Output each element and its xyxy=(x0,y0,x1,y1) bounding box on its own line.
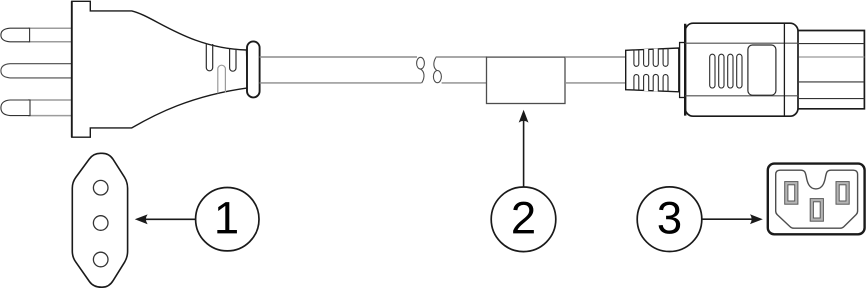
cable break mark left xyxy=(417,57,425,83)
comb flange xyxy=(680,43,686,98)
body grip slot 2 xyxy=(719,54,724,88)
cable segment right xyxy=(565,57,627,83)
comb slot top 3 xyxy=(653,49,658,67)
cable segment middle xyxy=(436,57,487,83)
body grip slot 4 xyxy=(737,54,742,88)
comb slot top 1 xyxy=(634,49,639,66)
callout circle 1 xyxy=(196,188,259,251)
comb slot bottom 2 xyxy=(644,74,649,91)
socket hole top xyxy=(93,180,108,195)
plug grip slot 1 xyxy=(206,43,212,71)
front line 1 xyxy=(799,43,864,45)
C13 front piece xyxy=(798,31,864,109)
plug grip slot 2 xyxy=(230,48,236,71)
callout circle 3 xyxy=(637,187,702,252)
socket hole bottom xyxy=(93,252,108,267)
front line 4 xyxy=(799,98,864,100)
plug pin top tip xyxy=(1,28,30,42)
inlet slot neutral xyxy=(836,182,849,205)
strain relief collar xyxy=(247,41,260,97)
inlet slot live xyxy=(785,182,798,205)
plug body xyxy=(72,1,248,137)
callout arrow 2 xyxy=(519,110,529,187)
cable segment left xyxy=(260,57,422,83)
body latch plate xyxy=(748,45,776,95)
C13 strain relief comb xyxy=(626,48,679,92)
callout arrow 1 xyxy=(135,214,196,224)
callout circle 2 xyxy=(491,187,556,252)
body mid band top line xyxy=(685,42,798,44)
C13 connector body xyxy=(685,23,798,116)
plug face edge xyxy=(71,1,73,137)
body left edge xyxy=(684,24,686,116)
socket hole middle xyxy=(93,216,108,231)
label box xyxy=(487,57,566,103)
C13 inlet outer xyxy=(768,164,865,235)
C13 inlet outline xyxy=(776,170,858,228)
comb slot top 2 xyxy=(644,49,649,67)
front line 3 xyxy=(799,81,864,83)
plug pin middle xyxy=(1,64,72,78)
body grip slot 3 xyxy=(728,54,733,88)
comb slot bottom 3 xyxy=(653,74,658,91)
callout number 1 xyxy=(217,202,237,233)
plug grip slot rising xyxy=(218,65,226,93)
inlet slot earth xyxy=(810,199,823,222)
plug pin bottom sleeve xyxy=(28,100,72,116)
callout arrow 3 xyxy=(702,214,763,224)
comb slot bottom 1 xyxy=(634,75,639,91)
plug pin top sleeve xyxy=(28,28,72,42)
body separator line xyxy=(783,24,785,117)
callout number 3 xyxy=(659,202,681,234)
callout number 2 xyxy=(513,202,534,234)
swiss socket face xyxy=(72,153,127,287)
comb slot bottom 4 xyxy=(663,75,668,92)
cable break mark right xyxy=(433,57,441,83)
plug pin bottom tip xyxy=(1,100,30,116)
body grip slot 1 xyxy=(710,54,715,88)
front line 2 xyxy=(799,56,864,58)
comb slot top 4 xyxy=(663,48,668,66)
body mid band bottom line xyxy=(685,95,798,97)
